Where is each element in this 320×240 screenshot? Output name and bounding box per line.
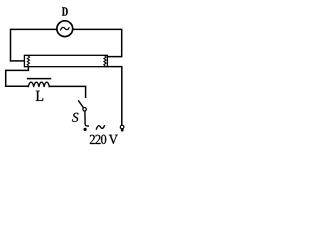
AC symbol ~ of 220 V source bbox=[96, 126, 104, 129]
label L bbox=[36, 91, 43, 101]
wire: top horizontal from lamp to top-right corner, down right side to tube upper-right pin bbox=[73, 29, 122, 56]
filament (right) bbox=[104, 56, 106, 66]
wire: tube lower-right pin to right side, down to source right terminal bbox=[107, 67, 121, 126]
switch S pivot contact bbox=[83, 108, 87, 112]
filament (left) bbox=[27, 56, 29, 66]
wire: tube lower-left pin down, left under tube, down to ballast bbox=[6, 67, 29, 87]
label D bbox=[62, 7, 68, 15]
label S bbox=[72, 113, 78, 122]
wire: top-left loop (left vertical and top horizontal to lamp) bbox=[11, 29, 57, 61]
source right terminal dot bbox=[121, 129, 124, 132]
wire: tube upper-left pin lead bbox=[11, 60, 25, 62]
inductor L (ballast) coil bbox=[28, 82, 49, 86]
inductor core bar bbox=[28, 78, 51, 80]
label 220 V bbox=[90, 135, 118, 144]
sine wave inside lamp D bbox=[61, 27, 70, 30]
switch S blade bbox=[79, 101, 84, 108]
source left terminal dot bbox=[84, 128, 87, 131]
wire: switch to source left terminal bbox=[85, 111, 88, 126]
wire: to ballast bbox=[6, 85, 28, 87]
fluorescent tube bbox=[24, 55, 107, 66]
source right terminal open contact bbox=[120, 125, 124, 129]
lamp D (starter-position indicator lamp) bbox=[57, 21, 73, 37]
wire: ballast to switch bbox=[49, 86, 85, 97]
